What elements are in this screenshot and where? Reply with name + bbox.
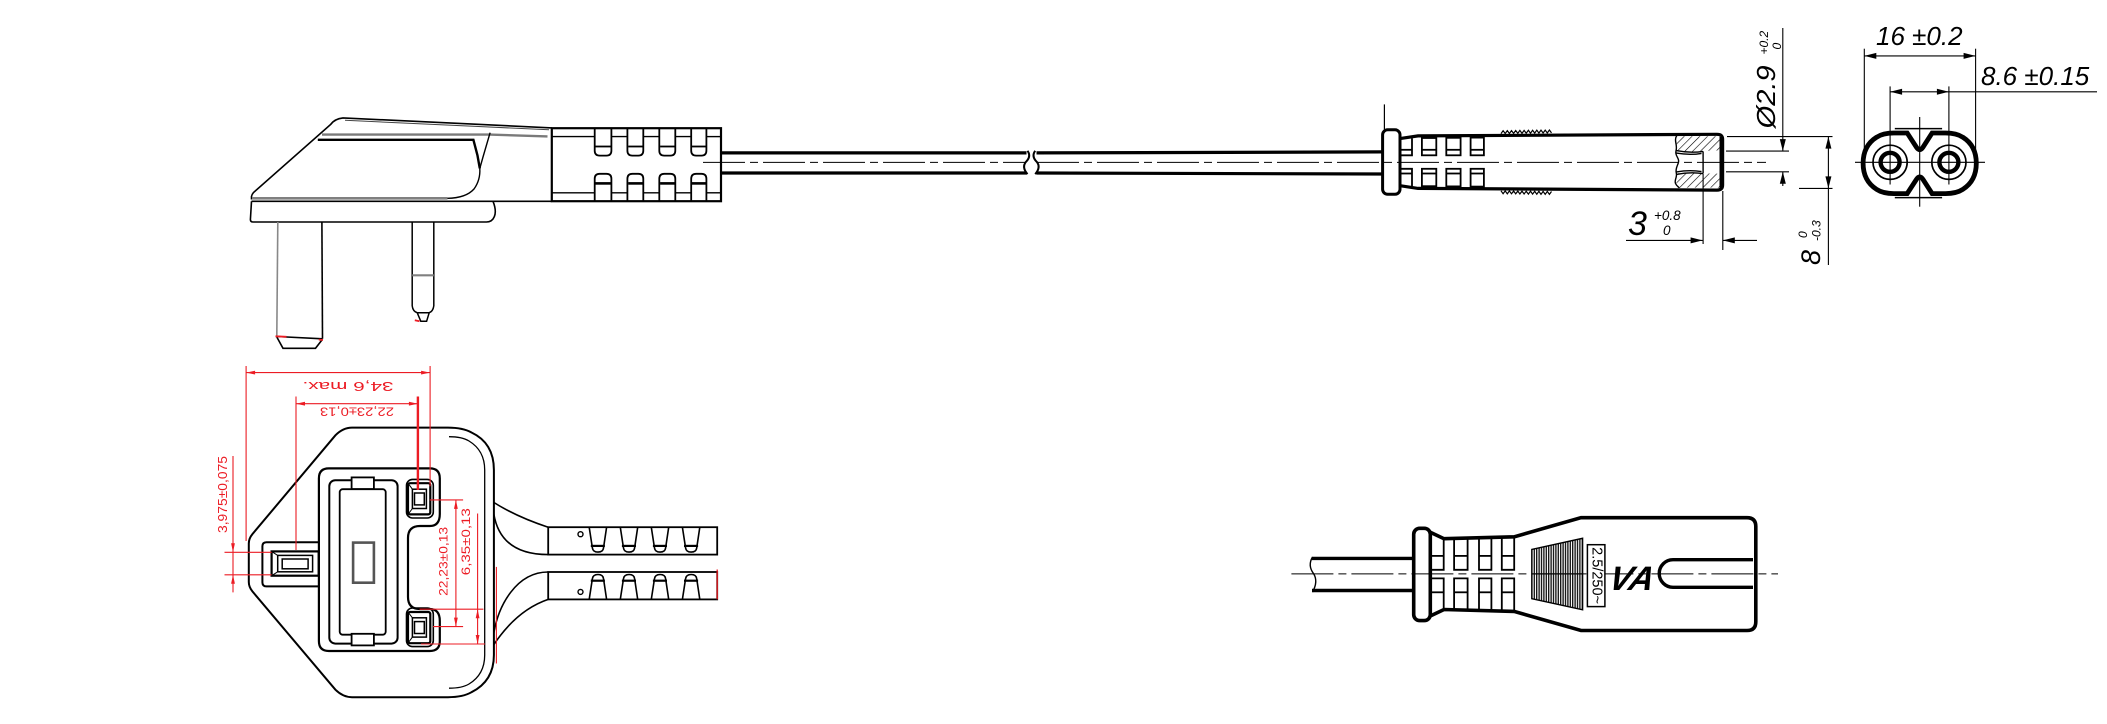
dimension 16 +/-0.2 (1864, 21, 1975, 152)
dimension diameter 2.9 +0.2/0 (1726, 28, 1789, 186)
C7 top view: upper rib grid (1430, 537, 1514, 570)
C7 front: centerlines (1855, 115, 1985, 207)
C7 top view: entry cap (1414, 528, 1431, 620)
svg-text:0: 0 (1796, 231, 1810, 238)
svg-text:Ø2.9: Ø2.9 (1751, 65, 1781, 129)
plug bottom view: neutral pin end-on (408, 612, 430, 643)
cable centerline (703, 161, 1766, 163)
plug bottom view: boot lower strip (548, 572, 717, 599)
plug bottom view: top clip tab (352, 477, 374, 489)
plug bottom view: neutral pin boss (407, 608, 434, 647)
plug bottom view: earth pin tongue (262, 542, 319, 586)
svg-text:-0.3: -0.3 (1810, 220, 1824, 241)
plug side view: top parting line (gray) (322, 135, 548, 137)
dimension 8.6 +/-0.15 (1890, 61, 2097, 115)
plug side view: boot top rib slots (595, 128, 707, 155)
C7 side: body outline (1400, 134, 1723, 190)
C7 side: knurl serration bottom (1501, 191, 1552, 195)
dimension 34.6 max (red) (246, 366, 430, 541)
dimension 8 0/-0.3 (1727, 137, 1833, 265)
plug bottom view: boot upper strip (548, 527, 717, 554)
dimension 3.975 (red, vertical) (225, 456, 272, 592)
plug side view: line pin red tip mark (415, 320, 420, 321)
dimension 22.23 vertical (red) (430, 500, 463, 627)
C7 side: entry cap (1383, 130, 1400, 195)
C7 top view: cable (1310, 557, 1413, 592)
dimension 6.35 (red, vertical) (420, 514, 485, 645)
svg-text:8: 8 (1796, 250, 1826, 265)
C7 front: top chamfer line (1895, 128, 1942, 130)
plug side view: bottom parting line (gray) (252, 197, 448, 200)
plug side view: top edge inner line (345, 120, 549, 130)
plug side view: boot bottom rib slots (595, 174, 707, 201)
plug bottom view: boot lower rib slots (589, 575, 700, 600)
cable right segment (1037, 152, 1384, 174)
plug bottom view: line pin end-on (408, 483, 430, 514)
cable break squiggles (1024, 151, 1039, 174)
plug bottom view: red end line of boot (716, 570, 718, 600)
plug side view: earth pin red tip marks (276, 336, 324, 340)
plug bottom view: fuse window (353, 543, 374, 583)
C7 side: socket bore lip lines (1676, 151, 1703, 175)
C7 front: right contact hole (1932, 145, 1966, 179)
svg-text:0: 0 (1663, 223, 1671, 238)
plug bottom view: boot upper strip screw dot (578, 532, 583, 537)
C7 top view: rating label box (1587, 545, 1605, 607)
C7 side: knurl serration top (1501, 130, 1552, 134)
svg-text:8.6 ±0.15: 8.6 ±0.15 (1981, 61, 2090, 91)
C7 top view: body outline (1430, 518, 1756, 631)
C7 side: upper rib slots (1400, 138, 1484, 156)
C7 front: outline with V-notches (1863, 133, 1976, 194)
plug bottom view: inner chamfer line (449, 437, 485, 689)
plug bottom view: boot lower strip screw dot (578, 589, 583, 594)
C7 side: stray vertical tick (1383, 104, 1385, 129)
svg-text:6,35±0,13: 6,35±0,13 (459, 508, 473, 575)
plug bottom view: cover plate outer (329, 480, 397, 643)
plug side view: line pin (412, 222, 434, 321)
C7 top view: grip serration patch (1532, 538, 1583, 610)
C7 side: lower hatched section (1676, 172, 1720, 187)
svg-text:+0.8: +0.8 (1654, 208, 1681, 223)
C7 top view: parting groove capsule (1659, 560, 1753, 588)
C7 front: bottom chamfer line (1895, 197, 1942, 199)
svg-text:34,6 max.: 34,6 max. (303, 379, 394, 394)
plug bottom view: boot upper rib slots (589, 527, 700, 552)
plug bottom view: earth pin end-on (272, 551, 319, 575)
svg-text:VA: VA (1605, 560, 1659, 597)
cable left segment (722, 153, 1027, 173)
plug side view: body outline (252, 118, 552, 200)
svg-text:+0.2: +0.2 (1757, 30, 1771, 54)
dimension 22.23 horizontal (red) (296, 397, 418, 551)
plug bottom view: line pin boss (407, 479, 434, 518)
C7 side: broken-section wavy boundary (1675, 136, 1679, 188)
C7 side: upper hatched section (1676, 136, 1721, 152)
svg-text:3,975±0,075: 3,975±0,075 (215, 456, 230, 533)
plug side view: cord grip boot box (552, 128, 721, 201)
C7 side: thick end face (1719, 136, 1722, 188)
plug side view: base flange (250, 201, 551, 222)
plug bottom view: lower neck curves (494, 572, 548, 645)
dimension 3 +0.8/0 (1626, 174, 1757, 250)
plug side view: earth pin (277, 222, 323, 348)
svg-text:16 ±0.2: 16 ±0.2 (1876, 21, 1963, 51)
C7 top view: centerline across serration patch (1532, 573, 1583, 575)
plug bottom view: central platform with notch (319, 468, 440, 651)
plug bottom view: bottom clip tab (352, 634, 374, 646)
plug bottom view: upper neck curves (494, 503, 548, 555)
C7 top view: centerline (1291, 573, 1778, 575)
svg-text:3: 3 (1628, 205, 1647, 243)
C7 front: left contact hole (1873, 145, 1907, 179)
svg-text:0: 0 (1770, 43, 1784, 50)
C7 side: lower rib slots (1400, 169, 1484, 187)
plug side view: inner window outline (318, 133, 490, 199)
svg-text:22,23±0,13: 22,23±0,13 (320, 405, 394, 419)
svg-text:22,23±0,13: 22,23±0,13 (436, 527, 450, 596)
plug bottom view: red line at body right edge (495, 567, 497, 664)
svg-text:2.5/250~: 2.5/250~ (1589, 547, 1605, 604)
plug bottom view: body outline (249, 428, 494, 698)
C7 top view: lower rib grid (1430, 578, 1514, 611)
C7 side: recess depth line (1702, 151, 1704, 173)
plug bottom view: cover plate inner (340, 489, 386, 635)
